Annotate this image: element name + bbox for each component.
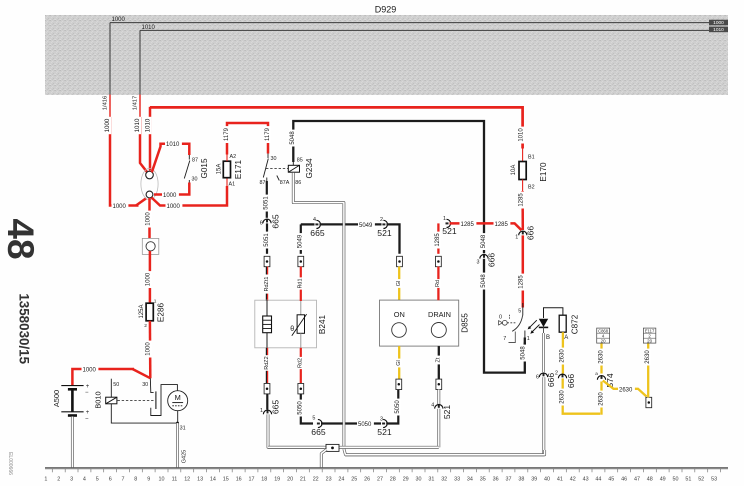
- svg-text:5051: 5051: [264, 233, 270, 247]
- svg-text:10A: 10A: [511, 165, 517, 176]
- label 2630 574up: [598, 349, 605, 366]
- LED arrows: [528, 320, 540, 334]
- label 5051 lower: [263, 232, 270, 249]
- label 30 G234: [271, 156, 277, 162]
- svg-text:20: 20: [287, 477, 293, 483]
- svg-text:1000: 1000: [146, 342, 152, 356]
- label 665 p6: [271, 214, 281, 229]
- label 87 G234: [260, 180, 266, 186]
- svg-text:A1: A1: [229, 182, 236, 188]
- label 665 p1: [271, 400, 281, 415]
- ground splice: [326, 444, 339, 451]
- svg-text:1285: 1285: [435, 233, 441, 247]
- label 0 key: [499, 314, 502, 320]
- svg-text:5: 5: [312, 415, 315, 421]
- label 1/417: [133, 96, 139, 111]
- label 1010 on band wire: [142, 25, 156, 31]
- svg-text:20: 20: [647, 338, 652, 343]
- svg-text:2630: 2630: [560, 349, 566, 363]
- svg-text:35: 35: [480, 477, 486, 483]
- svg-text:5050: 5050: [298, 401, 304, 415]
- B010 dashed link: [118, 399, 155, 401]
- svg-text:2630: 2630: [619, 387, 633, 393]
- wire 2630 branch: [603, 381, 647, 397]
- svg-text:6: 6: [536, 375, 539, 381]
- wire 2630 from A: [562, 332, 564, 373]
- label 2630 low: [559, 389, 566, 406]
- svg-text:RdZt1: RdZt1: [264, 277, 270, 292]
- svg-text:29: 29: [403, 477, 409, 483]
- relay coil lead 85: [292, 162, 294, 166]
- svg-text:7: 7: [122, 477, 125, 483]
- wire RdZt1: [266, 267, 267, 302]
- svg-text:E171: E171: [234, 159, 243, 179]
- label G425: [181, 450, 187, 463]
- label 1010: [134, 117, 141, 134]
- svg-text:1: 1: [515, 235, 518, 241]
- svg-text:1010: 1010: [166, 142, 180, 148]
- label 6 666: [536, 375, 539, 381]
- label 5 665: [312, 415, 315, 421]
- resistor heater element: [263, 316, 272, 333]
- svg-text:15: 15: [223, 477, 229, 483]
- svg-text:2: 2: [144, 323, 147, 329]
- svg-text:EL000666: EL000666: [7, 452, 13, 475]
- label 665 p5: [311, 427, 326, 437]
- label plus bottom: [86, 410, 90, 416]
- label 521 p2: [377, 228, 392, 238]
- svg-text:11: 11: [172, 477, 178, 483]
- svg-text:1010: 1010: [518, 128, 524, 142]
- label E170: [539, 162, 548, 182]
- ground bus horizontal: [268, 446, 439, 449]
- ground wire G234 pin86: [293, 173, 344, 446]
- indicator ON: [392, 323, 407, 338]
- motor bottom lead: [177, 411, 179, 423]
- svg-text:2: 2: [555, 371, 558, 377]
- svg-text:9: 9: [147, 477, 150, 483]
- svg-text:48: 48: [0, 218, 41, 259]
- svg-text:43: 43: [583, 477, 589, 483]
- svg-text:θ: θ: [290, 326, 294, 333]
- svg-text:10: 10: [159, 477, 165, 483]
- svg-text:25: 25: [351, 477, 357, 483]
- svg-text:4: 4: [431, 403, 434, 409]
- connector 521 pin4: [435, 405, 443, 409]
- wire 2630 574 up: [600, 343, 602, 373]
- label 666 p1: [526, 226, 536, 241]
- svg-text:2: 2: [380, 217, 383, 223]
- svg-text:87A: 87A: [280, 180, 290, 186]
- label 1010 b: [144, 117, 151, 134]
- svg-text:47: 47: [634, 477, 640, 483]
- ground wire G425: [176, 423, 179, 468]
- B010 coil bottom wire: [111, 404, 176, 423]
- B241 thermistor lead top: [300, 300, 302, 315]
- svg-text:A2: A2: [230, 154, 237, 160]
- svg-text:26: 26: [364, 477, 370, 483]
- label 521 p4: [442, 405, 452, 420]
- svg-text:Gl: Gl: [396, 360, 402, 366]
- label 1000 on band wire: [112, 17, 126, 23]
- svg-text:1000: 1000: [113, 204, 127, 210]
- svg-text:27: 27: [377, 477, 383, 483]
- label 1000 col: [145, 211, 152, 228]
- label 1010 E170: [518, 127, 525, 144]
- label 1010 G015: [165, 141, 182, 148]
- label plus top: [86, 384, 90, 390]
- label 1 key: [527, 336, 530, 342]
- label D929: [375, 5, 397, 15]
- connector 665 pin1: [263, 410, 271, 414]
- wire 5048 below pin3: [484, 259, 525, 373]
- connector 521 pin3b: [382, 419, 387, 427]
- wire 5048 from key: [524, 343, 526, 349]
- svg-text:D929: D929: [375, 5, 397, 15]
- label 2630 A: [559, 348, 566, 365]
- wire 5049 right col: [300, 224, 302, 253]
- B010 coil: [106, 397, 117, 404]
- label 665 p4: [310, 228, 325, 238]
- node 31: [176, 422, 179, 425]
- svg-text:33: 33: [454, 477, 460, 483]
- splice RdZ2: [264, 384, 270, 394]
- svg-text:50: 50: [113, 382, 119, 388]
- svg-text:41: 41: [557, 477, 563, 483]
- svg-text:31: 31: [180, 425, 186, 431]
- ground bus lower: [344, 449, 545, 455]
- svg-text:13: 13: [197, 477, 203, 483]
- svg-text:1000: 1000: [104, 118, 111, 132]
- svg-text:18: 18: [261, 477, 267, 483]
- wire 1285 to switch: [522, 235, 525, 307]
- svg-text:1179: 1179: [224, 127, 230, 141]
- connector housing G-junction: [141, 168, 158, 199]
- wire 1179 bracket: [227, 123, 268, 155]
- wire 1010 in band: [140, 29, 710, 31]
- bracket C872: [544, 308, 563, 318]
- wire 5049 rail3: [387, 224, 400, 253]
- svg-text:1000: 1000: [112, 17, 126, 23]
- svg-text:46: 46: [621, 477, 627, 483]
- label minus bottom: [85, 416, 89, 422]
- label 1000 battery: [82, 366, 99, 373]
- svg-text:5049: 5049: [359, 223, 373, 229]
- wire 1000 from G015 pin30: [154, 183, 189, 195]
- svg-text:666: 666: [526, 226, 536, 241]
- wire Gl upper: [398, 267, 400, 301]
- B010 fixed contact: [151, 385, 178, 416]
- label A2: [230, 154, 237, 160]
- svg-text:5: 5: [96, 477, 99, 483]
- svg-text:+: +: [86, 410, 90, 416]
- fuse E171 lead A2: [226, 154, 228, 162]
- svg-text:666: 666: [566, 374, 576, 389]
- label Rd drain: [435, 279, 442, 288]
- svg-text:B1: B1: [528, 154, 535, 160]
- svg-text:1010: 1010: [713, 27, 724, 33]
- label 574: [605, 373, 615, 388]
- key switch pin1: [524, 331, 526, 343]
- svg-text:40: 40: [544, 477, 550, 483]
- svg-text:Gl: Gl: [396, 281, 402, 287]
- splice Zt: [436, 379, 442, 389]
- svg-text:17: 17: [249, 477, 255, 483]
- label 31: [180, 425, 186, 431]
- label RdZ2: [264, 355, 271, 371]
- svg-text:5049: 5049: [298, 234, 304, 248]
- svg-text:15A: 15A: [216, 164, 222, 175]
- label 1285 sw: [518, 274, 525, 291]
- svg-text:+: +: [86, 384, 90, 390]
- ground wire from B: [542, 333, 545, 372]
- connector 574 pin: [597, 376, 605, 380]
- wire 1010 red vertical b: [149, 107, 152, 171]
- label 2630 E117: [645, 349, 652, 366]
- wire RdZ2: [266, 348, 267, 383]
- wire 5050 mid: [321, 422, 381, 424]
- svg-text:Rd1: Rd1: [298, 278, 304, 288]
- fuse E170 lead B2: [522, 180, 524, 192]
- label 1179 right: [264, 126, 271, 143]
- wire diag to pin30: [133, 369, 151, 378]
- label 1285 below E170: [518, 192, 525, 209]
- label 5051 upper: [263, 195, 270, 212]
- switch G015 pin 30 tick: [188, 180, 190, 183]
- component B241 box: [255, 300, 317, 348]
- svg-text:E170: E170: [539, 162, 548, 182]
- svg-text:B010: B010: [93, 391, 102, 408]
- svg-text:a: a: [595, 371, 598, 376]
- svg-text:5051: 5051: [264, 196, 270, 210]
- wire 5049 rail: [301, 223, 315, 225]
- fuse E171 15A: [223, 161, 230, 178]
- wire 5050 up: [386, 390, 398, 424]
- label A: [564, 335, 568, 341]
- svg-text:6: 6: [260, 221, 263, 227]
- scale numbers: [44, 477, 717, 483]
- svg-text:3: 3: [477, 260, 480, 266]
- svg-text:5048: 5048: [481, 234, 487, 248]
- label 5048 right upper: [481, 233, 488, 250]
- connector 666 pin3: [480, 255, 488, 259]
- label 30 B010: [142, 382, 148, 388]
- svg-text:49: 49: [660, 477, 666, 483]
- svg-text:521: 521: [377, 228, 392, 238]
- label 1285 drain: [435, 232, 442, 249]
- doc code: [7, 452, 13, 475]
- label Rd1: [297, 277, 304, 289]
- wire 5048 bracket: [293, 121, 484, 253]
- svg-text:1: 1: [260, 408, 263, 414]
- svg-text:B: B: [546, 335, 550, 341]
- ground wire below 666 pin6: [345, 377, 544, 455]
- label Gl upper: [396, 279, 403, 288]
- fuse E170 10A: [519, 162, 526, 180]
- svg-text:86: 86: [295, 180, 301, 186]
- wire 1000 drop in band: [109, 23, 111, 106]
- wire 1285 drain upper: [437, 223, 439, 253]
- svg-text:1: 1: [527, 336, 530, 342]
- label 5049 col: [297, 233, 304, 250]
- label 10A: [511, 165, 517, 176]
- svg-text:0: 0: [499, 314, 502, 320]
- svg-text:1010: 1010: [134, 118, 141, 132]
- label theta: [290, 326, 294, 333]
- label 1000 inline: [112, 203, 129, 210]
- label 1000 G015: [162, 192, 179, 199]
- label 666 r3: [487, 253, 497, 268]
- wire 1000 through connector: [149, 251, 152, 303]
- label 521 p1: [442, 226, 457, 236]
- wire 1000 red vertical: [110, 117, 139, 206]
- svg-text:Rd: Rd: [435, 280, 441, 287]
- label DRAIN: [428, 310, 451, 319]
- label B2: [528, 184, 535, 190]
- label 1000: [104, 117, 111, 134]
- fuse E170 lead B1: [522, 149, 524, 162]
- ground wire from 665 pin1: [268, 414, 324, 447]
- switch G015 pin 87 tick: [188, 155, 190, 160]
- ground wire from 521 pin4: [437, 409, 440, 448]
- svg-text:665: 665: [311, 427, 326, 437]
- splice Rd1: [298, 256, 304, 266]
- battery A500: [61, 386, 83, 416]
- svg-text:42: 42: [570, 477, 576, 483]
- label 3 666: [477, 260, 480, 266]
- svg-text:1179: 1179: [265, 127, 271, 141]
- svg-text:8: 8: [134, 477, 137, 483]
- wire 1285 below E170: [521, 191, 524, 230]
- label 15A: [216, 164, 222, 175]
- label 1/416: [103, 96, 109, 111]
- label Zt: [435, 356, 442, 365]
- svg-text:521: 521: [377, 427, 392, 437]
- svg-text:4: 4: [83, 477, 86, 483]
- resistor C872: [559, 315, 566, 332]
- svg-text:G234: G234: [305, 158, 314, 178]
- label 6 665: [260, 221, 263, 227]
- svg-text:24: 24: [338, 477, 344, 483]
- svg-text:1285: 1285: [519, 275, 525, 289]
- svg-text:5: 5: [518, 309, 521, 315]
- page number 48: [0, 218, 41, 259]
- label ON: [394, 310, 405, 319]
- relay G234 pin87 tick: [266, 178, 268, 182]
- wire 1000 red thin: [109, 95, 111, 120]
- B010 pin30 lead: [150, 378, 153, 393]
- wire Gl lower: [398, 346, 400, 379]
- svg-text:23: 23: [326, 477, 332, 483]
- svg-text:30: 30: [271, 156, 277, 162]
- thermistor element: [292, 314, 307, 336]
- diode LED: [539, 319, 548, 333]
- svg-text:3: 3: [70, 477, 73, 483]
- svg-text:1285: 1285: [461, 222, 475, 228]
- svg-text:30: 30: [192, 177, 198, 183]
- connector 666 pin2: [558, 374, 566, 378]
- svg-text:2630: 2630: [560, 390, 566, 404]
- svg-text:B241: B241: [318, 314, 327, 334]
- svg-text:45: 45: [608, 477, 614, 483]
- svg-text:2630: 2630: [598, 350, 604, 364]
- label 87A: [280, 180, 290, 186]
- diagram number: [17, 293, 32, 364]
- switch G015 blade: [184, 161, 190, 179]
- svg-text:16: 16: [236, 477, 242, 483]
- node junction upper: [146, 171, 154, 179]
- svg-text:1358030/15: 1358030/15: [17, 293, 32, 364]
- wire to 665 pin1: [266, 394, 268, 410]
- node junction lower: [146, 191, 153, 198]
- svg-text:1: 1: [443, 216, 446, 222]
- label 30: [192, 177, 198, 183]
- svg-text:Rd2: Rd2: [298, 358, 304, 368]
- svg-text:30: 30: [142, 382, 148, 388]
- B010 contact bar: [155, 391, 157, 409]
- wire 5049 rail2: [320, 223, 382, 225]
- B241 thermistor lead bottom: [300, 333, 302, 348]
- svg-text:1/416: 1/416: [103, 96, 109, 111]
- svg-text:M: M: [175, 393, 181, 402]
- key switch blade: [512, 316, 522, 332]
- svg-text:30: 30: [416, 477, 422, 483]
- label B241: [318, 314, 327, 334]
- relay G234 pin30 tick: [267, 154, 269, 159]
- label Rd2: [297, 357, 304, 369]
- label G234: [305, 158, 314, 178]
- label 5048 lower: [481, 273, 488, 290]
- svg-text:21: 21: [300, 477, 306, 483]
- label 3 521b: [380, 417, 383, 423]
- label 5050 left: [297, 400, 304, 417]
- svg-text:31: 31: [428, 477, 434, 483]
- label 2 666: [555, 371, 558, 377]
- wire 1000 junction to E171: [152, 186, 228, 206]
- label 5048 key: [520, 345, 527, 362]
- label 1000 inline2: [166, 203, 183, 210]
- label 125A: [139, 304, 145, 318]
- fuse E286 125A: [146, 303, 153, 321]
- svg-text:521: 521: [442, 226, 457, 236]
- svg-text:20: 20: [601, 338, 606, 343]
- wire 1285 key stub: [522, 303, 524, 316]
- svg-text:−: −: [85, 390, 89, 396]
- label 2 521: [380, 217, 383, 223]
- svg-text:3: 3: [380, 417, 383, 423]
- scale ticks: [52, 469, 720, 472]
- label D855: [461, 313, 470, 333]
- label RdZt1: [264, 275, 271, 294]
- label 50: [113, 382, 119, 388]
- label 1 521: [443, 216, 446, 222]
- svg-text:53: 53: [711, 477, 717, 483]
- relay G234 blade: [263, 159, 268, 178]
- label A1: [229, 182, 236, 188]
- label 1285 rail b: [494, 221, 511, 228]
- svg-text:2630: 2630: [645, 350, 651, 364]
- label 7 key: [503, 336, 506, 342]
- svg-text:B2: B2: [528, 184, 535, 190]
- label 2630 574dn: [598, 391, 605, 408]
- label A500: [52, 390, 61, 407]
- label C872: [570, 314, 579, 334]
- B241 heater lead bottom: [266, 333, 268, 348]
- svg-text:87: 87: [192, 158, 198, 164]
- svg-text:G015: G015: [200, 158, 209, 178]
- relay G234 coil: [288, 165, 299, 172]
- wire 1010 top rail: [150, 107, 523, 148]
